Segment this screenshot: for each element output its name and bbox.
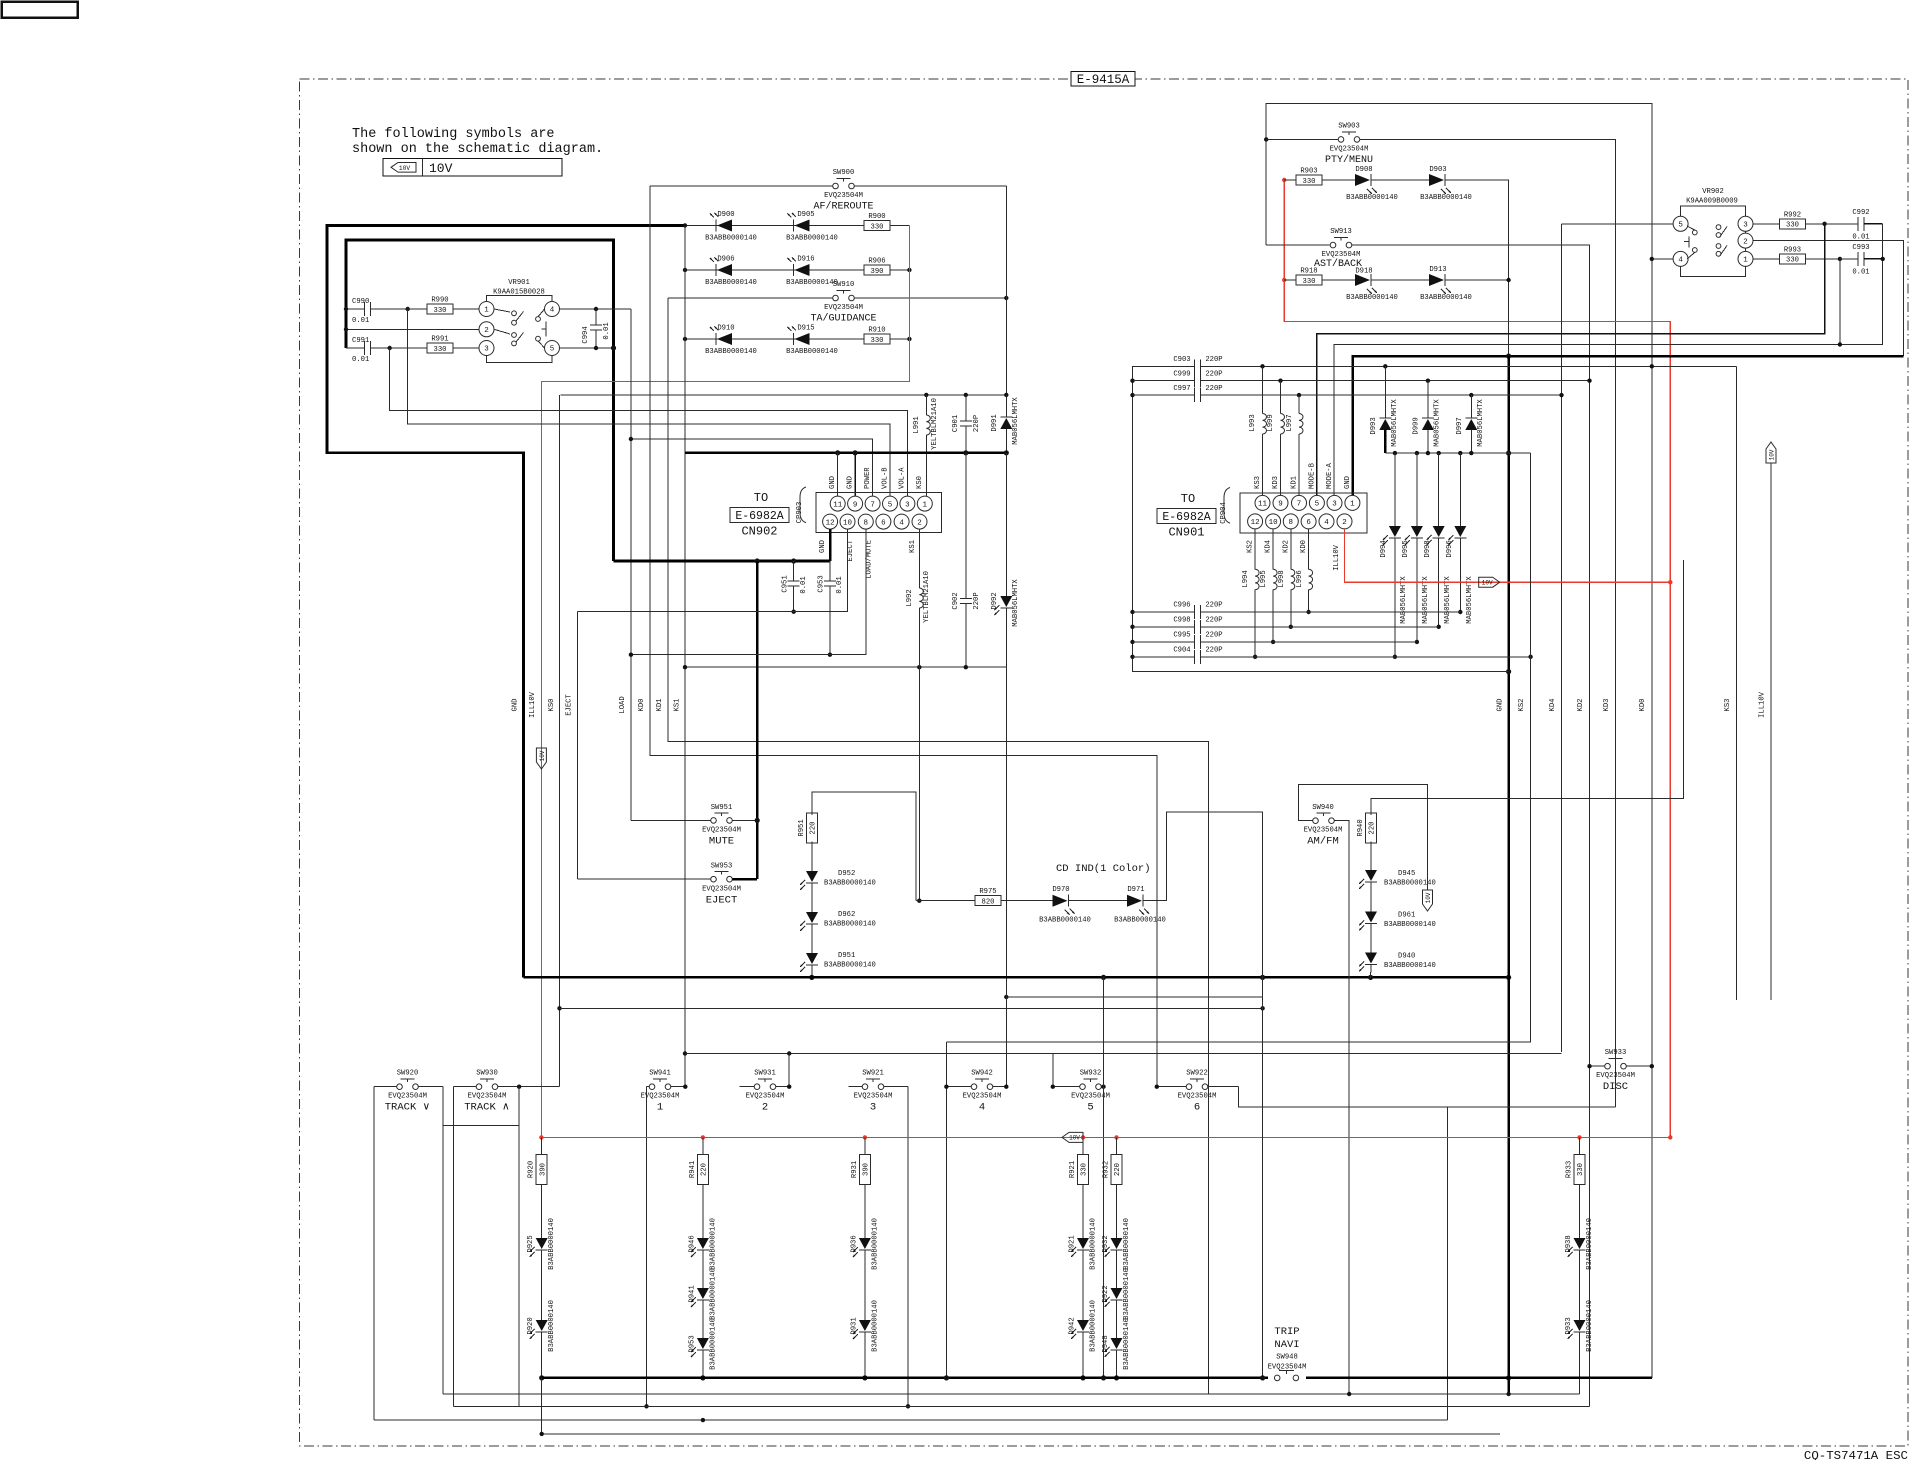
wire rowE stub — [541, 1378, 543, 1434]
svg-text:B3ABB0000140: B3ABB0000140 — [871, 1218, 879, 1270]
svg-text:D932: D932 — [1102, 1235, 1110, 1252]
svg-text:L993: L993 — [1249, 414, 1257, 431]
wire left rail CN901 — [1133, 366, 1509, 671]
svg-text:MODE-A: MODE-A — [1326, 462, 1334, 489]
svg-text:330: 330 — [1786, 222, 1799, 230]
diode D962 — [800, 883, 876, 931]
svg-text:D962: D962 — [838, 911, 855, 919]
svg-text:SW951: SW951 — [711, 804, 733, 812]
rotary encoder VR902 — [1673, 188, 1753, 277]
switch SW933 DISC — [1590, 1049, 1652, 1093]
svg-text:330: 330 — [1786, 257, 1799, 265]
wire pin12 GND drop — [829, 529, 832, 561]
junction feeder D906 — [683, 268, 687, 272]
junction R910 red rail — [907, 337, 911, 341]
wire D951 to gnd bus — [811, 965, 813, 977]
wire bottom row E — [542, 1433, 1500, 1435]
diode D971 — [1069, 886, 1166, 925]
svg-text:R992: R992 — [1784, 211, 1801, 219]
switch SW921 key3 — [848, 1070, 908, 1114]
wire SW930 left drop — [452, 1087, 454, 1407]
junction dbus D999 — [1426, 451, 1430, 455]
power flag 10V on ILL rail — [536, 748, 546, 769]
svg-text:VR901: VR901 — [508, 279, 530, 287]
capacitor C992 — [1825, 209, 1883, 242]
svg-text:5: 5 — [888, 501, 893, 509]
svg-text:11: 11 — [1258, 501, 1268, 509]
switch SW920 TRACK down — [374, 1070, 443, 1114]
diode D994 — [1380, 453, 1408, 659]
svg-text:2: 2 — [917, 519, 922, 527]
junction KD4 jog feeder — [683, 1051, 687, 1055]
svg-text:330: 330 — [1081, 1163, 1089, 1176]
label TO E-6982A CN901 — [1157, 492, 1216, 540]
svg-text:9: 9 — [1278, 501, 1283, 509]
svg-text:KD3: KD3 — [1603, 699, 1611, 712]
svg-text:0.01: 0.01 — [1852, 269, 1869, 277]
svg-text:B3ABB0000140: B3ABB0000140 — [1114, 917, 1166, 925]
wire VR901 pin4 to C994 and LOAD column — [560, 308, 631, 310]
junction SW932 right — [1101, 1085, 1105, 1089]
svg-text:L996: L996 — [1296, 570, 1304, 587]
svg-text:2: 2 — [762, 1102, 768, 1114]
junction gnd row A — [1506, 1375, 1511, 1380]
svg-text:B3ABB0000140: B3ABB0000140 — [1123, 1218, 1131, 1270]
resistor R975 — [975, 888, 1054, 906]
diode D995 — [1402, 453, 1430, 644]
junction dots on left rail — [344, 307, 348, 332]
junction rail C996 — [1130, 610, 1134, 614]
capacitor C951 — [782, 561, 809, 612]
wire POWER pin7 — [631, 439, 873, 496]
svg-text:1: 1 — [1743, 257, 1748, 265]
switch SW910 — [668, 281, 1006, 325]
pin labels CN901 bottom — [1247, 540, 1341, 571]
junction rail C999 — [1130, 379, 1134, 383]
svg-text:R906: R906 — [868, 258, 885, 266]
svg-text:3: 3 — [484, 346, 489, 354]
svg-text:C902: C902 — [952, 592, 960, 609]
svg-text:4: 4 — [979, 1102, 985, 1114]
svg-text:VOL-A: VOL-A — [899, 467, 907, 489]
svg-text:0.01: 0.01 — [836, 576, 844, 593]
svg-text:3: 3 — [905, 501, 910, 509]
svg-text:B3ABB0000140: B3ABB0000140 — [705, 279, 757, 287]
junction rowA riser2 — [1101, 1375, 1106, 1380]
junction node C990/R990 — [406, 307, 410, 311]
svg-text:KS3: KS3 — [1254, 476, 1262, 489]
svg-text:EVQ23504M: EVQ23504M — [702, 885, 741, 893]
diode D908 — [1322, 166, 1430, 202]
connector CN901 pins row2 — [1248, 514, 1352, 529]
junction KS0 link — [557, 1006, 561, 1010]
junction SW921 row C — [906, 1404, 910, 1408]
svg-text:10V: 10V — [1769, 449, 1776, 460]
svg-text:D905: D905 — [797, 211, 814, 219]
svg-text:7: 7 — [870, 501, 875, 509]
junction node C991/R991 — [388, 346, 392, 350]
svg-text:12: 12 — [1251, 519, 1260, 527]
wire link row 1008 — [560, 1007, 1263, 1009]
power flag 10V bottom — [1062, 1132, 1083, 1142]
junction pin4 KD0 — [1650, 257, 1654, 261]
diode D900 — [705, 211, 757, 243]
svg-text:3: 3 — [1332, 501, 1337, 509]
junction rail C995 — [1130, 640, 1134, 644]
svg-text:EJECT: EJECT — [847, 539, 855, 561]
svg-text:220P: 220P — [973, 592, 981, 609]
wire D906 row — [685, 269, 864, 271]
svg-text:TA/GUIDANCE: TA/GUIDANCE — [810, 313, 876, 325]
resistor R993 — [1753, 246, 1840, 264]
svg-text:R993: R993 — [1784, 246, 1801, 254]
svg-text:220P: 220P — [1205, 602, 1222, 610]
capacitor C990 — [346, 298, 408, 325]
svg-text:220: 220 — [701, 1163, 709, 1176]
svg-text:C994: C994 — [582, 326, 590, 343]
svg-text:D920: D920 — [527, 1317, 535, 1334]
svg-text:B3ABB0000140: B3ABB0000140 — [1090, 1218, 1098, 1270]
svg-text:EVQ23504M: EVQ23504M — [388, 1093, 427, 1101]
svg-text:TO: TO — [754, 491, 768, 505]
svg-text:C901: C901 — [952, 415, 960, 432]
svg-text:TRACK ∨: TRACK ∨ — [385, 1102, 431, 1114]
svg-text:D945: D945 — [1398, 870, 1415, 878]
svg-text:B3ABB0000140: B3ABB0000140 — [1384, 962, 1436, 970]
svg-text:GND: GND — [819, 540, 827, 553]
svg-text:B3ABB0000140: B3ABB0000140 — [548, 1300, 556, 1352]
junction MUTE right — [755, 818, 760, 823]
svg-text:B3ABB0000140: B3ABB0000140 — [1039, 917, 1091, 925]
junction LOAD col — [629, 653, 633, 657]
svg-text:GND: GND — [1344, 476, 1352, 489]
svg-text:R933: R933 — [1566, 1161, 1574, 1178]
resistor R900 — [864, 213, 909, 231]
svg-text:D915: D915 — [797, 325, 814, 333]
svg-text:330: 330 — [1577, 1163, 1585, 1176]
switch SW941 key1 — [641, 1070, 686, 1114]
svg-text:10: 10 — [1269, 519, 1279, 527]
wire KS1 link row — [685, 666, 1006, 668]
wire riser key row D — [1447, 1107, 1449, 1420]
svg-text:L999: L999 — [1267, 414, 1275, 431]
junction rail C904 — [1130, 655, 1134, 659]
diode D999 — [1413, 379, 1442, 454]
wire keys top jog — [685, 1053, 1053, 1055]
svg-text:B3ABB0000140: B3ABB0000140 — [786, 348, 838, 356]
wire LOAD column — [630, 309, 632, 820]
svg-text:R903: R903 — [1300, 168, 1317, 176]
capacitor C901 — [952, 395, 981, 453]
svg-text:1: 1 — [657, 1102, 663, 1114]
junction dbus D998 — [1437, 451, 1441, 455]
svg-text:ILL10V: ILL10V — [1759, 691, 1767, 718]
rotary encoder VR901 — [479, 279, 560, 363]
wire KS3 column — [1736, 366, 1738, 1000]
junction SW941 row C — [644, 1404, 648, 1408]
svg-text:R918: R918 — [1300, 268, 1317, 276]
junction SW942 right D992col — [1004, 1085, 1008, 1089]
svg-text:MAB056LMHTX: MAB056LMHTX — [1391, 399, 1399, 447]
svg-text:MAB056LMHTX: MAB056LMHTX — [1444, 576, 1452, 624]
junction SW942 stub — [944, 1085, 948, 1089]
svg-text:B3ABB0000140: B3ABB0000140 — [824, 921, 876, 929]
svg-text:3: 3 — [870, 1102, 876, 1114]
svg-text:SW921: SW921 — [862, 1070, 884, 1078]
svg-text:L991: L991 — [913, 416, 921, 433]
svg-text:MODE-B: MODE-B — [1308, 462, 1316, 489]
wire SW922 right path — [1238, 1087, 1615, 1107]
svg-text:D941: D941 — [688, 1285, 696, 1302]
svg-text:SW922: SW922 — [1186, 1070, 1208, 1078]
junction C953 bottom — [828, 653, 832, 657]
svg-text:11: 11 — [833, 501, 843, 509]
inductor L996 — [1296, 529, 1313, 614]
switch SW953 EJECT — [578, 863, 758, 907]
svg-text:SW920: SW920 — [397, 1070, 419, 1078]
junction R993 C993 — [1838, 257, 1842, 261]
svg-text:R975: R975 — [979, 888, 996, 896]
svg-text:5: 5 — [1678, 222, 1683, 230]
junction C999 KD2 — [1587, 379, 1591, 383]
svg-text:R900: R900 — [868, 213, 885, 221]
junction bus D940 — [1368, 975, 1373, 980]
svg-text:TO: TO — [1181, 492, 1195, 506]
wire MODE-A net — [1334, 224, 1883, 496]
junction rowB SW940 — [1347, 1392, 1351, 1396]
junction dbus D997 — [1469, 451, 1473, 455]
svg-text:B3ABB0000140: B3ABB0000140 — [1090, 1300, 1098, 1352]
svg-text:AF/REROUTE: AF/REROUTE — [813, 201, 873, 213]
svg-text:D999: D999 — [1413, 417, 1421, 434]
svg-text:220P: 220P — [1205, 617, 1222, 625]
svg-text:D916: D916 — [797, 256, 814, 264]
capacitor C994 — [582, 309, 611, 348]
svg-text:D900: D900 — [717, 211, 734, 219]
svg-text:EVQ23504M: EVQ23504M — [1596, 1072, 1635, 1080]
svg-text:LOAD/MUTE: LOAD/MUTE — [866, 540, 874, 579]
svg-text:MAB056LMHTX: MAB056LMHTX — [1422, 576, 1430, 624]
svg-text:C953: C953 — [818, 575, 826, 592]
junction D991 top — [1004, 393, 1008, 397]
svg-text:330: 330 — [1303, 278, 1316, 286]
capacitor C997 — [1133, 385, 1562, 402]
svg-text:2: 2 — [484, 327, 489, 335]
resistor R990 — [408, 297, 479, 315]
resistor R941 chain (R941 D946 D941 D953) — [688, 1137, 717, 1378]
svg-text:CP903: CP903 — [796, 502, 804, 524]
svg-text:5: 5 — [1315, 501, 1320, 509]
svg-text:4: 4 — [1678, 257, 1683, 265]
svg-text:C990: C990 — [352, 298, 369, 306]
junction GND mid — [1506, 354, 1511, 359]
svg-text:4: 4 — [1324, 519, 1329, 527]
junction C994 top — [594, 307, 598, 311]
wire C993 drop — [1839, 259, 1841, 345]
svg-text:MAB056LMHTX: MAB056LMHTX — [1012, 579, 1020, 627]
svg-text:SW940: SW940 — [1312, 804, 1334, 812]
svg-text:SW930: SW930 — [476, 1070, 498, 1078]
svg-text:4: 4 — [550, 307, 555, 315]
wire bottom row A thick — [542, 1377, 1652, 1380]
svg-text:SW933: SW933 — [1605, 1049, 1627, 1057]
svg-text:10V: 10V — [539, 750, 546, 761]
diode D913 — [1420, 266, 1508, 302]
svg-text:KD2: KD2 — [1282, 540, 1290, 553]
svg-text:330: 330 — [434, 346, 447, 354]
svg-text:EVQ23504M: EVQ23504M — [1071, 1093, 1110, 1101]
junction KS1 row — [683, 665, 968, 669]
svg-text:EVQ23504M: EVQ23504M — [1178, 1093, 1217, 1101]
wire EJECT column — [577, 612, 579, 880]
svg-text:MAB056LMHTX: MAB056LMHTX — [1466, 576, 1474, 624]
junction SW941 right feeder — [683, 1085, 687, 1089]
svg-text:CP904: CP904 — [1220, 502, 1228, 524]
switch SW940 AMFM — [1298, 785, 1427, 1394]
svg-text:10V: 10V — [1069, 1135, 1080, 1142]
svg-text:KD1: KD1 — [1291, 476, 1299, 489]
svg-text:R990: R990 — [431, 297, 448, 305]
junction chain3 rowA — [862, 1375, 867, 1380]
junction rowA sw948 — [1260, 1375, 1265, 1380]
svg-text:GND: GND — [829, 476, 837, 489]
svg-text:B3ABB0000140: B3ABB0000140 — [824, 880, 876, 888]
svg-text:KD1: KD1 — [656, 699, 664, 712]
junction rail C997 — [1130, 393, 1134, 397]
svg-text:8: 8 — [1289, 519, 1294, 527]
junction PTY rail SW903 — [1264, 137, 1268, 141]
resistor R910 — [864, 327, 909, 345]
wire bus riser drop — [1103, 977, 1105, 1378]
diode D993 — [1370, 364, 1399, 453]
diode D906 — [705, 256, 757, 288]
svg-text:SW942: SW942 — [971, 1070, 993, 1078]
svg-text:SW953: SW953 — [711, 863, 733, 871]
resistor R920 chain (R920 D925 D920) — [527, 1137, 556, 1378]
wire KD4 column — [1561, 224, 1563, 1052]
svg-text:D913: D913 — [1429, 266, 1446, 274]
connector CN901 pins row1 — [1255, 495, 1360, 510]
junction C993 right — [1881, 257, 1885, 261]
resistor R932 chain (R932 D932 D922 D948) — [1102, 1137, 1131, 1378]
junction rail C998 — [1130, 625, 1134, 629]
capacitor C953 — [818, 561, 845, 655]
junction C903 KD0 — [1650, 364, 1654, 368]
connector CN901 frame — [1220, 488, 1367, 533]
svg-text:B3ABB0000140: B3ABB0000140 — [709, 1318, 717, 1370]
page corner reference box — [2, 2, 78, 18]
svg-text:1: 1 — [484, 307, 489, 315]
svg-text:KS1: KS1 — [674, 699, 682, 712]
wire KS1 feeder column — [684, 226, 686, 1087]
svg-text:GND: GND — [512, 699, 520, 712]
svg-text:220: 220 — [1369, 822, 1377, 835]
svg-text:B3ABB0000140: B3ABB0000140 — [1586, 1218, 1594, 1270]
svg-text:C951: C951 — [782, 575, 790, 592]
svg-text:K9AA009B0009: K9AA009B0009 — [1686, 198, 1738, 206]
wire CD IND loop — [1143, 812, 1263, 977]
svg-text:L992: L992 — [906, 589, 914, 606]
svg-text:MAB056LMHTX: MAB056LMHTX — [1434, 399, 1442, 447]
svg-text:L994: L994 — [1242, 570, 1250, 587]
wire bottom row D — [374, 1419, 1448, 1421]
capacitor C996 — [1133, 602, 1461, 619]
svg-text:0.01: 0.01 — [352, 356, 369, 364]
junction DISC left — [1587, 1064, 1591, 1068]
svg-text:R932: R932 — [1103, 1161, 1111, 1178]
diode D992 — [991, 453, 1020, 1087]
svg-text:D996: D996 — [1446, 540, 1454, 557]
svg-text:EVQ23504M: EVQ23504M — [468, 1093, 507, 1101]
switch SW903 — [1266, 123, 1615, 1107]
svg-text:KS0: KS0 — [916, 476, 924, 489]
svg-text:220P: 220P — [1205, 385, 1222, 393]
svg-text:12: 12 — [826, 519, 835, 527]
diode D945 — [1359, 841, 1436, 889]
svg-text:SW900: SW900 — [833, 169, 855, 177]
wire VOL-A pin3 — [390, 348, 908, 496]
wire SW920 right drop — [442, 1087, 444, 1394]
wire VR902 pin5 — [1562, 223, 1674, 225]
svg-text:D940: D940 — [1398, 953, 1415, 961]
svg-text:CQ-TS7471A ESC: CQ-TS7471A ESC — [1804, 1449, 1908, 1460]
wire D910 row — [685, 338, 864, 340]
svg-text:390: 390 — [871, 268, 884, 276]
wire link row 997 — [1006, 996, 1262, 998]
wire KS1 pin2 — [918, 529, 920, 545]
legend symbol box — [383, 159, 562, 177]
wire bottom row B — [443, 1393, 1580, 1395]
svg-text:EVQ23504M: EVQ23504M — [963, 1093, 1002, 1101]
svg-text:B3ABB0000140: B3ABB0000140 — [709, 1218, 717, 1270]
junction C904 KS2 — [1528, 655, 1532, 659]
junction POWER-LOAD — [629, 437, 633, 441]
wire pin11 GND — [837, 453, 839, 496]
wire SW921 right drop — [907, 1087, 909, 1407]
svg-text:B3ABB0000140: B3ABB0000140 — [1420, 194, 1472, 202]
svg-text:D953: D953 — [688, 1335, 696, 1352]
connector CN902 pins row1 — [830, 496, 932, 511]
diode D970 — [1039, 886, 1091, 925]
junction SW932 left — [1051, 1085, 1055, 1089]
svg-text:EVQ23504M: EVQ23504M — [702, 827, 741, 835]
svg-text:D921: D921 — [1069, 1235, 1077, 1252]
wire diode bus CN901 — [1385, 452, 1530, 454]
inductor L998 — [1278, 529, 1295, 629]
svg-text:2: 2 — [1342, 519, 1347, 527]
wire SW942 left drop — [945, 1042, 947, 1378]
svg-text:R920: R920 — [528, 1161, 536, 1178]
svg-text:D970: D970 — [1052, 886, 1069, 894]
svg-text:KS3: KS3 — [1724, 699, 1732, 712]
svg-text:D933: D933 — [1565, 1317, 1573, 1334]
svg-text:LOAD: LOAD — [619, 696, 627, 713]
wire ILL10V right column — [1770, 463, 1772, 1000]
switch SW930 TRACK up — [453, 1070, 559, 1114]
diode D997 — [1456, 393, 1485, 453]
wire thick GND bottom bus — [524, 976, 1509, 979]
svg-text:B3ABB0000140: B3ABB0000140 — [705, 348, 757, 356]
svg-text:220P: 220P — [1205, 356, 1222, 364]
wire thick inner VR901 frame — [346, 240, 614, 561]
svg-text:3: 3 — [1743, 222, 1748, 230]
junction rowA riser1 — [944, 1375, 949, 1380]
switch SW931 key2 — [740, 1070, 790, 1114]
junction bus D991 — [1004, 450, 1009, 455]
svg-text:KS0: KS0 — [548, 699, 556, 712]
resistor R921 chain (R921 D921 D942) — [1069, 1137, 1098, 1378]
svg-text:SW932: SW932 — [1080, 1070, 1102, 1078]
